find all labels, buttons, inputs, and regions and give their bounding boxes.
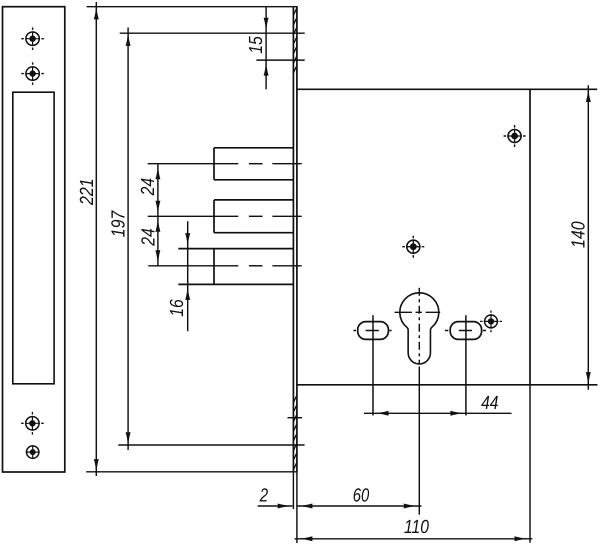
svg-text:24: 24 (138, 178, 159, 196)
svg-text:44: 44 (481, 393, 498, 414)
svg-text:16: 16 (167, 299, 188, 317)
svg-text:221: 221 (77, 178, 98, 205)
svg-text:24: 24 (138, 228, 159, 246)
svg-text:15: 15 (246, 36, 267, 54)
svg-text:140: 140 (568, 221, 589, 248)
svg-text:2: 2 (259, 485, 269, 506)
svg-text:60: 60 (353, 485, 370, 506)
svg-text:110: 110 (404, 517, 429, 538)
svg-text:197: 197 (109, 210, 130, 238)
